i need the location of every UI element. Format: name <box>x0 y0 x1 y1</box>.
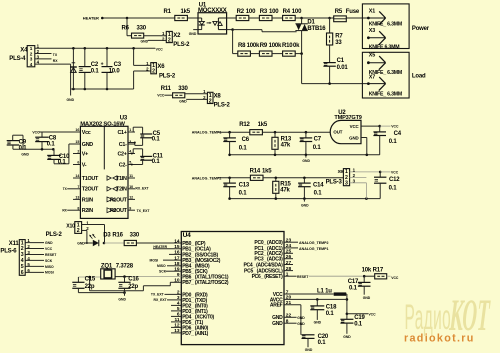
svg-text:GND: GND <box>363 296 371 300</box>
svg-text:R8: R8 <box>238 43 246 49</box>
svg-text:0.1: 0.1 <box>314 190 323 196</box>
svg-text:C12: C12 <box>389 177 400 183</box>
svg-text:C13: C13 <box>239 183 250 189</box>
svg-text:0.1: 0.1 <box>318 340 327 346</box>
svg-text:HEATER: HEATER <box>83 16 99 21</box>
svg-text:PLS-6: PLS-6 <box>0 248 17 254</box>
svg-text:R6: R6 <box>122 26 130 32</box>
svg-text:OUT: OUT <box>333 130 342 135</box>
svg-text:MOSI: MOSI <box>45 271 54 275</box>
svg-text:0.1: 0.1 <box>389 139 398 145</box>
svg-text:X10: X10 <box>66 223 75 229</box>
svg-text:VCC: VCC <box>32 131 40 135</box>
svg-text:MOCXXXX: MOCXXXX <box>198 8 227 14</box>
svg-text:100: 100 <box>269 9 279 15</box>
svg-text:KNIFE 6.3MM: KNIFE 6.3MM <box>369 44 400 50</box>
svg-text:C7: C7 <box>314 136 322 142</box>
svg-text:C2+: C2+ <box>117 151 126 157</box>
svg-text:C6: C6 <box>242 137 250 143</box>
svg-text:R16: R16 <box>112 233 123 239</box>
svg-text:X9: X9 <box>338 169 344 174</box>
svg-text:C4: C4 <box>394 131 402 137</box>
svg-text:U4: U4 <box>183 232 192 239</box>
svg-text:BTB16: BTB16 <box>307 26 326 32</box>
svg-text:1k5: 1k5 <box>181 9 191 15</box>
svg-text:MAX202 SO-16W: MAX202 SO-16W <box>80 121 125 127</box>
svg-text:PLS-2: PLS-2 <box>159 74 176 80</box>
svg-text:100k: 100k <box>269 43 282 49</box>
svg-text:7.3728: 7.3728 <box>116 264 134 270</box>
svg-text:TX_EXT: TX_EXT <box>151 293 165 297</box>
svg-text:0.1: 0.1 <box>152 159 161 165</box>
svg-text:R3: R3 <box>260 9 268 15</box>
svg-text:PLS-2: PLS-2 <box>173 42 190 48</box>
svg-text:VCC: VCC <box>350 124 360 129</box>
svg-text:C16: C16 <box>128 277 139 283</box>
svg-text:0.1: 0.1 <box>326 311 335 317</box>
svg-text:PB7_ (XTAL2/TOSC2): PB7_ (XTAL2/TOSC2) <box>182 280 229 286</box>
svg-text:AREF: AREF <box>270 303 283 309</box>
svg-text:TX_EXT: TX_EXT <box>137 209 151 213</box>
svg-text:ZQ1: ZQ1 <box>101 264 113 270</box>
svg-text:T1OUT: T1OUT <box>82 176 99 182</box>
svg-text:0.1: 0.1 <box>91 69 100 75</box>
svg-text:X4: X4 <box>20 47 28 53</box>
svg-text:Power: Power <box>412 26 430 32</box>
svg-text:C2-: C2- <box>119 162 127 168</box>
svg-text:C15: C15 <box>85 277 96 283</box>
svg-text:MISO: MISO <box>157 264 166 268</box>
svg-text:0.01: 0.01 <box>337 65 349 71</box>
svg-text:C19: C19 <box>354 315 365 321</box>
svg-text:RX_EXT: RX_EXT <box>135 187 149 191</box>
svg-text:GND: GND <box>21 152 29 156</box>
svg-text:2: 2 <box>168 38 171 44</box>
svg-text:C2: C2 <box>91 62 99 68</box>
svg-text:GND: GND <box>179 99 187 103</box>
svg-text:X6: X6 <box>157 64 165 70</box>
svg-text:Vcc: Vcc <box>82 130 91 136</box>
svg-text:0.1: 0.1 <box>239 145 248 151</box>
svg-text:X2: X2 <box>173 33 181 39</box>
svg-text:PC6_ (RESET): PC6_ (RESET) <box>252 274 283 280</box>
svg-text:10k: 10k <box>362 268 372 274</box>
svg-text:6: 6 <box>21 270 24 276</box>
svg-text:100k: 100k <box>247 43 260 49</box>
svg-text:1k5: 1k5 <box>258 122 268 128</box>
svg-text:0.1: 0.1 <box>389 185 398 191</box>
svg-text:PC4_ (ADC4/SDA): PC4_ (ADC4/SDA) <box>243 262 283 268</box>
svg-text:X8: X8 <box>214 94 222 100</box>
svg-text:GND: GND <box>189 32 197 36</box>
svg-text:0.1: 0.1 <box>152 137 161 143</box>
svg-text:ANALOG_TEMP2: ANALOG_TEMP2 <box>299 241 329 245</box>
svg-text:PLS-2: PLS-2 <box>46 232 63 238</box>
svg-text:PD7_ (AIN1): PD7_ (AIN1) <box>182 331 208 337</box>
svg-text:R12: R12 <box>239 122 250 128</box>
svg-text:47k: 47k <box>281 142 291 148</box>
svg-text:Радио: Радио <box>405 298 452 337</box>
svg-text:R2IN: R2IN <box>82 208 93 214</box>
svg-text:33: 33 <box>335 40 342 46</box>
svg-text:2: 2 <box>77 228 80 234</box>
svg-text:RX: RX <box>53 59 58 63</box>
svg-text:D3: D3 <box>103 233 111 239</box>
svg-text:330: 330 <box>130 233 140 239</box>
svg-text:D1: D1 <box>307 19 315 25</box>
svg-text:22p: 22p <box>128 284 138 290</box>
svg-text:C17: C17 <box>348 279 359 285</box>
svg-text:R11: R11 <box>161 86 172 92</box>
svg-text:0.1: 0.1 <box>313 145 322 151</box>
svg-text:Load: Load <box>412 74 426 80</box>
svg-text:ANALOG_TEMP1: ANALOG_TEMP1 <box>192 131 222 135</box>
svg-text:0.1: 0.1 <box>354 321 363 327</box>
svg-text:R4: R4 <box>283 9 291 15</box>
svg-text:RESET: RESET <box>45 253 57 257</box>
svg-text:GND: GND <box>302 159 310 163</box>
svg-text:X7: X7 <box>369 74 376 80</box>
svg-text:0.1: 0.1 <box>349 286 358 292</box>
svg-text:R1IN: R1IN <box>82 197 93 203</box>
svg-text:L1 1u: L1 1u <box>317 289 332 295</box>
svg-text:ANALOG_TEMP2: ANALOG_TEMP2 <box>192 176 222 180</box>
svg-text:GND: GND <box>297 322 305 326</box>
svg-text:GND: GND <box>45 241 53 245</box>
svg-text:330: 330 <box>137 26 147 32</box>
svg-text:22p: 22p <box>85 284 95 290</box>
svg-text:0.1: 0.1 <box>47 141 56 147</box>
svg-text:R1: R1 <box>164 9 172 15</box>
svg-text:X11: X11 <box>9 241 20 247</box>
svg-text:0k: 0k <box>293 43 300 49</box>
svg-text:C14: C14 <box>313 183 324 189</box>
svg-text:1k5: 1k5 <box>262 169 272 175</box>
svg-text:R17: R17 <box>373 268 384 274</box>
svg-text:R14: R14 <box>250 169 261 175</box>
svg-text:VCC: VCC <box>391 276 399 280</box>
svg-text:KNIFE_ 6.3MM: KNIFE_ 6.3MM <box>369 22 402 28</box>
svg-text:R5: R5 <box>335 9 343 15</box>
svg-text:C1+: C1+ <box>117 130 126 136</box>
svg-text:KNIFE_ 6.3MM: KNIFE_ 6.3MM <box>369 92 402 98</box>
svg-text:14: 14 <box>174 238 180 244</box>
svg-text:GND: GND <box>301 204 309 208</box>
svg-text:GND: GND <box>118 298 126 302</box>
svg-text:2: 2 <box>209 98 212 104</box>
svg-text:GND: GND <box>349 136 358 141</box>
svg-text:VCC: VCC <box>157 94 165 98</box>
svg-text:C1: C1 <box>337 58 345 64</box>
svg-text:Fuse: Fuse <box>346 9 360 15</box>
svg-text:T2IN: T2IN <box>116 187 127 193</box>
svg-text:GND: GND <box>67 98 75 102</box>
svg-text:GND: GND <box>305 348 313 352</box>
svg-text:PLS-2: PLS-2 <box>214 103 231 109</box>
svg-text:RESET: RESET <box>297 275 309 279</box>
svg-text:X5: X5 <box>369 53 376 59</box>
svg-text:R9: R9 <box>260 43 268 49</box>
svg-text:0.1: 0.1 <box>239 190 248 196</box>
svg-text:GND: GND <box>272 321 283 327</box>
svg-text:R2OUT: R2OUT <box>110 208 128 214</box>
svg-text:R7: R7 <box>335 33 343 39</box>
svg-text:GND: GND <box>314 321 322 325</box>
svg-text:X3: X3 <box>369 28 376 34</box>
svg-text:3: 3 <box>345 181 348 187</box>
svg-text:SCK: SCK <box>45 259 53 263</box>
svg-text:4: 4 <box>30 62 33 67</box>
svg-text:+: + <box>101 62 104 68</box>
svg-text:MISO: MISO <box>45 265 54 269</box>
svg-text:VCC: VCC <box>391 125 399 129</box>
svg-text:T2OUT: T2OUT <box>82 187 99 193</box>
svg-text:MOSI: MOSI <box>150 258 159 262</box>
svg-text:C18: C18 <box>326 305 337 311</box>
svg-text:PLS-4: PLS-4 <box>9 56 26 62</box>
svg-text:R2: R2 <box>237 9 245 15</box>
svg-text:R10: R10 <box>282 43 293 49</box>
svg-text:0.1: 0.1 <box>58 159 67 165</box>
svg-text:C3: C3 <box>114 62 122 68</box>
svg-text:VCC: VCC <box>156 48 164 52</box>
svg-text:TMP37GT9: TMP37GT9 <box>334 115 361 121</box>
svg-text:VCC: VCC <box>368 312 376 316</box>
svg-text:100: 100 <box>246 9 256 15</box>
svg-text:VCC: VCC <box>391 170 399 174</box>
svg-text:R1OUT: R1OUT <box>110 197 128 203</box>
svg-text:0.1: 0.1 <box>19 145 28 151</box>
svg-text:PLS-3: PLS-3 <box>326 179 343 185</box>
svg-text:ANALOG_TEMP1: ANALOG_TEMP1 <box>299 247 329 251</box>
svg-text:GND: GND <box>141 40 149 44</box>
svg-text:3: 3 <box>30 57 33 62</box>
svg-text:2: 2 <box>30 51 33 56</box>
svg-text:1: 1 <box>30 46 33 51</box>
svg-text:47k: 47k <box>280 188 290 194</box>
svg-text:V-: V- <box>82 162 87 168</box>
svg-text:GND: GND <box>297 316 305 320</box>
svg-text:2: 2 <box>152 69 155 75</box>
svg-text:VCC: VCC <box>45 247 53 251</box>
svg-text:radiokot.ru: radiokot.ru <box>404 333 475 345</box>
svg-text:T1IN: T1IN <box>116 176 127 182</box>
svg-text:10.0: 10.0 <box>109 69 121 75</box>
svg-text:X1: X1 <box>369 8 376 14</box>
svg-text:TX: TX <box>53 53 58 57</box>
svg-text:RX_EXT: RX_EXT <box>154 298 168 302</box>
svg-text:330: 330 <box>178 86 188 92</box>
svg-text:GND: GND <box>82 142 93 148</box>
svg-text:C1-: C1- <box>119 142 127 148</box>
svg-text:C20: C20 <box>318 334 329 340</box>
svg-text:V+: V+ <box>82 151 88 157</box>
svg-text:SCK: SCK <box>159 270 167 274</box>
svg-text:GND: GND <box>343 335 351 339</box>
svg-text:100: 100 <box>292 9 302 15</box>
